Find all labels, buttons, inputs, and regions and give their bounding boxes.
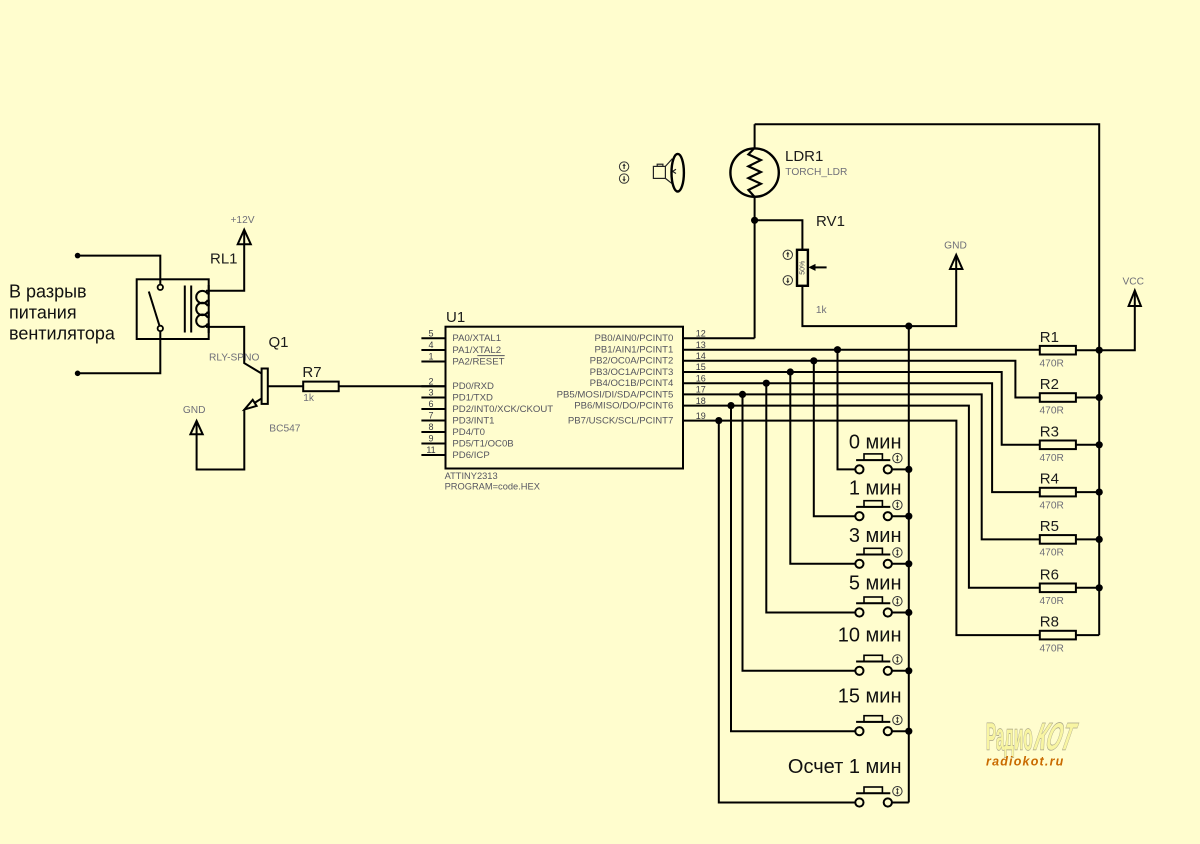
svg-text:PD3/INT1: PD3/INT1 (452, 415, 494, 426)
svg-text:LDR1: LDR1 (785, 148, 823, 165)
svg-text:12: 12 (696, 329, 706, 339)
svg-text:470R: 470R (1040, 453, 1064, 464)
svg-text:9: 9 (428, 434, 433, 444)
svg-text:PA1/XTAL2: PA1/XTAL2 (452, 345, 501, 356)
svg-text:PD5/T1/OC0B: PD5/T1/OC0B (452, 438, 513, 449)
svg-text:GND: GND (944, 240, 967, 251)
svg-text:0 мин: 0 мин (849, 431, 902, 453)
svg-text:В разрыв: В разрыв (9, 282, 87, 302)
svg-text:GND: GND (183, 405, 206, 416)
svg-text:BC547: BC547 (269, 424, 300, 435)
svg-text:PB6/MISO/DO/PCINT6: PB6/MISO/DO/PCINT6 (574, 401, 673, 412)
svg-text:R4: R4 (1040, 471, 1059, 488)
svg-text:R1: R1 (1040, 329, 1059, 346)
svg-text:1k: 1k (816, 305, 828, 316)
svg-text:5: 5 (428, 329, 433, 339)
svg-text:15 мин: 15 мин (838, 686, 902, 708)
svg-text:PD2/INT0/XCK/CKOUT: PD2/INT0/XCK/CKOUT (452, 404, 553, 415)
svg-text:13: 13 (696, 340, 706, 350)
svg-text:470R: 470R (1040, 406, 1064, 417)
svg-text:18: 18 (696, 396, 706, 406)
svg-text:PA0/XTAL1: PA0/XTAL1 (452, 333, 501, 344)
svg-text:PROGRAM=code.HEX: PROGRAM=code.HEX (445, 482, 540, 492)
svg-text:1: 1 (428, 352, 433, 362)
svg-text:16: 16 (696, 373, 706, 383)
svg-text:1 мин: 1 мин (849, 478, 902, 500)
svg-text:3: 3 (428, 388, 433, 398)
svg-text:PD1/TXD: PD1/TXD (452, 392, 493, 403)
svg-text:PB2/OC0A/PCINT2: PB2/OC0A/PCINT2 (590, 356, 674, 367)
svg-text:Радио: Радио (986, 717, 1033, 759)
svg-text:PD0/RXD: PD0/RXD (452, 381, 494, 392)
svg-text:R5: R5 (1040, 518, 1059, 535)
svg-text:R7: R7 (302, 364, 321, 381)
svg-text:PA2/RESET: PA2/RESET (452, 356, 504, 367)
svg-text:15: 15 (696, 362, 706, 372)
svg-text:470R: 470R (1040, 596, 1064, 607)
svg-text:19: 19 (696, 411, 706, 421)
svg-text:50%: 50% (800, 261, 807, 275)
svg-text:2: 2 (428, 377, 433, 387)
svg-text:8: 8 (428, 422, 433, 432)
svg-text:VCC: VCC (1122, 276, 1144, 287)
svg-text:RLY-SPNO: RLY-SPNO (209, 353, 259, 364)
svg-text:R3: R3 (1040, 423, 1059, 440)
svg-text:R2: R2 (1040, 376, 1059, 393)
svg-text:TORCH_LDR: TORCH_LDR (785, 167, 847, 178)
svg-text:470R: 470R (1040, 643, 1064, 654)
svg-text:5 мин: 5 мин (849, 573, 902, 595)
svg-text:6: 6 (428, 399, 433, 409)
svg-text:Осчет 1 мин: Осчет 1 мин (788, 756, 902, 778)
svg-text:470R: 470R (1040, 548, 1064, 559)
svg-text:RL1: RL1 (210, 251, 238, 268)
svg-text:4: 4 (428, 340, 433, 350)
svg-text:radiokot.ru: radiokot.ru (986, 755, 1064, 769)
svg-text:3 мин: 3 мин (849, 525, 902, 547)
svg-text:PB1/AIN1/PCINT1: PB1/AIN1/PCINT1 (594, 345, 673, 356)
svg-text:PB3/OC1A/PCINT3: PB3/OC1A/PCINT3 (590, 367, 674, 378)
svg-text:ATTINY2313: ATTINY2313 (445, 471, 498, 481)
svg-text:PB0/AIN0/PCINT0: PB0/AIN0/PCINT0 (594, 333, 673, 344)
svg-text:PB7/USCK/SCL/PCINT7: PB7/USCK/SCL/PCINT7 (568, 416, 674, 427)
svg-text:R8: R8 (1040, 614, 1059, 631)
svg-text:КОТ: КОТ (1031, 715, 1081, 758)
svg-text:11: 11 (426, 445, 435, 455)
svg-text:470R: 470R (1040, 358, 1064, 369)
svg-text:PD4/T0: PD4/T0 (452, 427, 485, 438)
svg-text:Q1: Q1 (269, 334, 289, 351)
svg-text:1k: 1k (303, 393, 315, 404)
svg-text:7: 7 (428, 411, 433, 421)
svg-text:R6: R6 (1040, 566, 1059, 583)
svg-text:+12V: +12V (230, 215, 254, 226)
svg-text:470R: 470R (1040, 500, 1064, 511)
svg-text:PB4/OC1B/PCINT4: PB4/OC1B/PCINT4 (590, 378, 674, 389)
svg-text:14: 14 (696, 351, 706, 361)
svg-text:U1: U1 (446, 309, 465, 326)
svg-text:питания: питания (9, 303, 77, 323)
svg-text:17: 17 (696, 385, 706, 395)
svg-text:RV1: RV1 (816, 213, 845, 230)
svg-text:10 мин: 10 мин (838, 625, 902, 647)
svg-text:PB5/MOSI/DI/SDA/PCINT5: PB5/MOSI/DI/SDA/PCINT5 (557, 389, 674, 400)
svg-text:PD6/ICP: PD6/ICP (452, 450, 489, 461)
svg-text:вентилятора: вентилятора (9, 324, 116, 344)
